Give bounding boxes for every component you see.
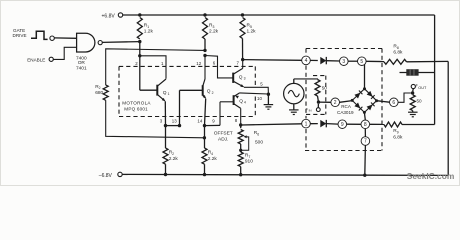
svg-text:3: 3 <box>244 77 246 81</box>
svg-text:6: 6 <box>392 100 395 106</box>
svg-text:10: 10 <box>257 96 262 101</box>
svg-text:1.2k: 1.2k <box>144 29 154 35</box>
svg-text:–6.8V: –6.8V <box>99 173 113 179</box>
svg-text:5: 5 <box>360 59 363 65</box>
svg-text:MOTOROLA: MOTOROLA <box>122 101 151 106</box>
svg-text:1: 1 <box>168 92 170 96</box>
svg-text:3: 3 <box>342 59 345 65</box>
svg-text:8: 8 <box>364 122 367 128</box>
svg-text:14: 14 <box>197 119 202 124</box>
svg-text:50: 50 <box>322 86 328 91</box>
svg-text:7401: 7401 <box>76 66 87 72</box>
svg-text:4: 4 <box>244 101 246 105</box>
svg-text:OR: OR <box>78 60 86 66</box>
svg-text:6.8k: 6.8k <box>393 134 403 140</box>
svg-text:2.2k: 2.2k <box>169 156 179 162</box>
svg-text:SeekIC.com: SeekIC.com <box>407 171 454 181</box>
svg-text:6.8k: 6.8k <box>393 50 403 56</box>
svg-text:9: 9 <box>341 122 344 128</box>
svg-text:RCA: RCA <box>341 104 352 109</box>
svg-text:OFFSET: OFFSET <box>214 131 233 137</box>
svg-text:4: 4 <box>305 58 308 64</box>
svg-text:1.2k: 1.2k <box>247 29 257 35</box>
svg-text:Q: Q <box>163 90 167 96</box>
svg-text:MPQ 6001: MPQ 6001 <box>124 107 148 112</box>
svg-text:ADJ.: ADJ. <box>218 137 228 143</box>
svg-text:CA3019: CA3019 <box>337 110 354 115</box>
svg-text:OUT: OUT <box>418 86 427 90</box>
svg-text:2: 2 <box>334 100 337 106</box>
svg-text:2: 2 <box>212 91 214 95</box>
svg-text:1: 1 <box>305 121 308 127</box>
svg-text:Q: Q <box>239 98 243 104</box>
svg-text:910: 910 <box>245 159 253 165</box>
svg-text:500: 500 <box>255 139 263 145</box>
svg-text:DRIVE: DRIVE <box>13 33 27 38</box>
svg-text:13: 13 <box>172 119 177 124</box>
svg-text:2.2k: 2.2k <box>208 156 218 162</box>
svg-text:50: 50 <box>417 99 423 104</box>
svg-text:Q: Q <box>207 89 211 95</box>
svg-text:7: 7 <box>364 139 367 145</box>
svg-text:ENABLE: ENABLE <box>27 57 45 62</box>
svg-text:680: 680 <box>95 90 103 96</box>
svg-text:IN: IN <box>309 109 312 113</box>
svg-text:+6.8V: +6.8V <box>102 13 116 19</box>
svg-text:2.2k: 2.2k <box>209 29 219 35</box>
svg-text:12: 12 <box>196 61 201 66</box>
svg-text:Q: Q <box>239 74 243 80</box>
